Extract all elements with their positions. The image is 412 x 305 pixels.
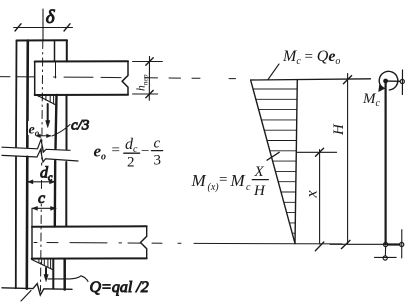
reaction arrow upper head xyxy=(46,121,50,128)
lower beam right end with break chevron xyxy=(141,226,147,258)
x dimension bottom tick xyxy=(315,242,324,251)
dimension delta: extension line xyxy=(42,9,44,41)
H dimension line xyxy=(347,74,349,244)
wall break line upper xyxy=(2,140,70,153)
upper bearing hatch hypotenuse xyxy=(35,94,57,106)
upper floor axis dash-dot line xyxy=(0,77,236,79)
c dimension extension line xyxy=(31,208,33,226)
moment diagram hypotenuse xyxy=(251,80,295,244)
svg-text:M: M xyxy=(191,171,207,190)
reaction arrow upper joint xyxy=(47,104,49,122)
leader line to Q label xyxy=(48,276,88,282)
svg-text:H: H xyxy=(331,123,347,136)
h_per dimension: top extension xyxy=(133,61,163,63)
upper beam left edge xyxy=(34,62,36,96)
mask under c label xyxy=(37,192,47,205)
mask under e_o label xyxy=(28,121,42,135)
svg-text:δ: δ xyxy=(46,7,56,28)
h_per dimension: bottom extension xyxy=(133,93,158,95)
svg-text:c: c xyxy=(246,182,251,193)
H dimension top tick xyxy=(343,76,351,84)
c right arrowhead xyxy=(51,206,56,210)
lower beam left edge xyxy=(31,227,33,259)
upper bearing hatch lines xyxy=(38,95,53,104)
upper beam bottom edge xyxy=(35,94,128,96)
column top pin (filled dot) xyxy=(384,79,388,83)
svg-text:2: 2 xyxy=(127,155,135,171)
moment arc arrow xyxy=(379,71,398,90)
lower support circle xyxy=(383,256,387,260)
svg-text:X: X xyxy=(254,164,265,180)
wall right face upper xyxy=(66,41,68,62)
fraction bar d_c/2 xyxy=(124,152,140,154)
wall line x54 upper xyxy=(54,41,56,62)
x dimension top tick xyxy=(316,148,324,156)
mask under d_c label xyxy=(39,166,52,180)
svg-text:dc: dc xyxy=(125,136,138,155)
wall outer face line (upper segment) xyxy=(15,41,18,148)
wall thick line below upper beam xyxy=(56,95,57,149)
svg-text:3: 3 xyxy=(154,153,162,169)
x dimension line xyxy=(319,150,321,245)
moment diagram right edge xyxy=(295,80,297,244)
wall right face mid xyxy=(65,162,67,227)
h_per dimension: bottom tick xyxy=(146,90,153,97)
svg-text:hпер: hпер xyxy=(136,74,150,91)
lower beam top edge xyxy=(32,225,147,227)
e_o right arrowhead xyxy=(47,134,52,138)
moment diagram hatch lines xyxy=(253,89,297,233)
wall thick line mid (between breaks and lower beam) xyxy=(54,161,57,227)
tick on x extension at hypotenuse xyxy=(267,152,279,160)
reaction arrow lower head xyxy=(44,275,48,282)
svg-text:c: c xyxy=(154,136,161,152)
svg-text:H: H xyxy=(253,183,266,199)
wall right face below lower beam xyxy=(63,259,66,290)
dimension delta: left tick xyxy=(15,24,21,31)
top link vertical line xyxy=(401,70,403,95)
lower bearing hatch hypotenuse xyxy=(32,260,53,270)
upper beam short interior line xyxy=(55,62,57,78)
formula e_o = d_c/2 - c/3 xyxy=(94,136,162,171)
svg-text:M: M xyxy=(230,171,246,190)
reaction arrow lower joint xyxy=(45,268,47,276)
svg-text:(x): (x) xyxy=(208,182,220,193)
wall line below lower beam xyxy=(52,259,54,289)
c left arrowhead xyxy=(32,206,37,210)
leader from label to diagram xyxy=(268,64,279,80)
break slash at bottom cut xyxy=(21,291,31,302)
e_o left arrowhead xyxy=(36,134,41,138)
bottom link bar xyxy=(388,243,400,245)
svg-text:x: x xyxy=(304,190,321,198)
dimension delta: dimension line xyxy=(14,27,73,29)
wall axis dash-dot line xyxy=(41,41,43,292)
svg-text:eo: eo xyxy=(94,142,107,163)
leader line to c/3 xyxy=(52,125,70,137)
h_per dimension: top tick xyxy=(146,58,153,65)
lower link vertical xyxy=(384,247,386,256)
fraction bar X/H xyxy=(252,179,268,181)
h_per dimension: vertical line xyxy=(148,56,150,100)
moment diagram top chord line xyxy=(251,79,371,80)
bottom right vertical line xyxy=(401,230,403,258)
svg-text:=: = xyxy=(219,172,227,188)
wall break line lower xyxy=(2,150,78,163)
wall top edge xyxy=(17,39,68,41)
svg-text:Mc = Qeo: Mc = Qeo xyxy=(282,48,340,67)
lower floor axis dash-dot line xyxy=(34,243,342,244)
H dimension bottom tick xyxy=(341,240,350,248)
lower bearing hatch lines xyxy=(39,259,51,269)
top link bar xyxy=(388,80,400,82)
formula M_(x) = M_c X/H xyxy=(191,164,267,199)
e_o small dimension line xyxy=(37,135,51,137)
svg-text:c: c xyxy=(38,190,45,207)
moment arc arrowhead xyxy=(379,85,385,92)
x dimension extension line xyxy=(297,151,337,153)
wall inner thick line (upper segment) xyxy=(26,41,29,148)
d_c right arrowhead xyxy=(50,180,55,184)
svg-text:−: − xyxy=(141,144,149,160)
upper beam top edge xyxy=(35,60,128,62)
bottom link right circle xyxy=(400,242,404,246)
column line xyxy=(385,81,387,245)
svg-text:=: = xyxy=(112,143,120,159)
wall inner thick line (lower segment) xyxy=(25,157,28,289)
top link circle xyxy=(400,79,404,83)
svg-text:Mc: Mc xyxy=(362,91,381,109)
d_c left arrowhead xyxy=(28,180,33,184)
base line xyxy=(330,243,400,245)
lower support ground line xyxy=(375,256,397,258)
wall outer face line (lower segment) xyxy=(15,157,17,289)
lower beam bottom edge xyxy=(32,257,147,259)
svg-text:c/3: c/3 xyxy=(71,118,89,134)
bottom pin circle xyxy=(384,242,388,246)
fraction bar c/3 xyxy=(152,150,163,152)
upper beam right end with break chevron xyxy=(122,61,128,95)
d_c dimension line xyxy=(28,181,56,183)
dimension delta: right tick xyxy=(64,24,70,31)
c dimension line xyxy=(32,207,56,209)
svg-text:Q=qal /2: Q=qal /2 xyxy=(90,279,149,296)
wall right face below upper beam xyxy=(66,95,68,149)
wall bottom cut line with break zigzag xyxy=(2,284,72,295)
